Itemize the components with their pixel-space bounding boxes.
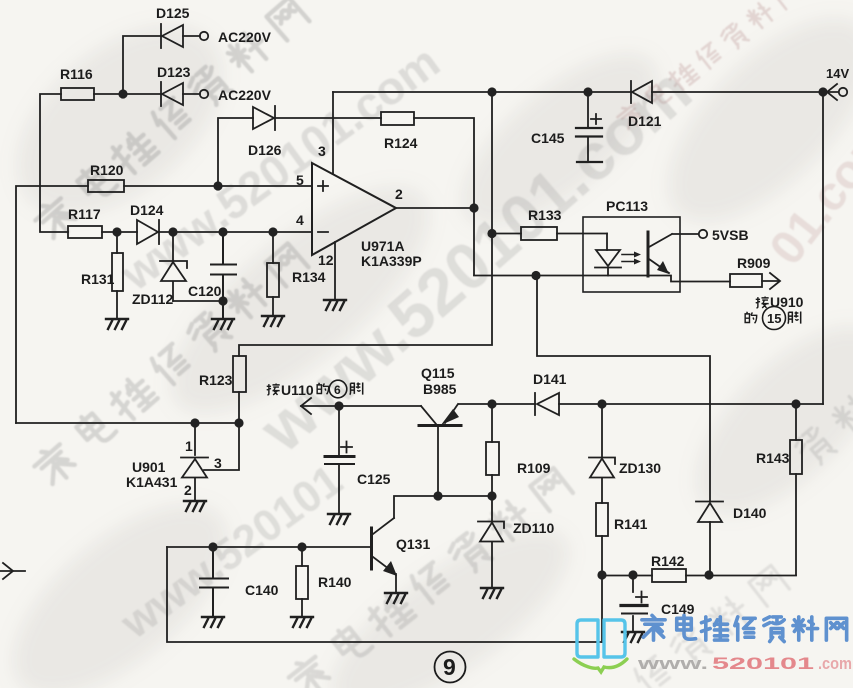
svg-text:.com: .com <box>818 654 852 673</box>
svg-text:K1A339P: K1A339P <box>361 253 422 269</box>
resistor R120 <box>88 180 124 192</box>
node: R134 tap <box>268 227 277 236</box>
wire: R116 right to D123 junction <box>94 93 161 95</box>
node: U901 top junction <box>190 418 199 427</box>
wire: Q131 collector to Q115 base row <box>394 496 492 518</box>
svg-text:ZD112: ZD112 <box>132 291 173 307</box>
node: R109 bottom junction <box>487 491 496 500</box>
terminal 5VSB <box>699 230 707 238</box>
svg-text:C149: C149 <box>661 601 695 617</box>
svg-text:R141: R141 <box>614 516 648 532</box>
diode D126 <box>253 106 275 130</box>
node: 14V rail end <box>818 87 827 96</box>
zener ZD112 <box>160 232 187 301</box>
ground (C149) <box>622 632 644 642</box>
svg-text:D140: D140 <box>733 505 767 521</box>
diode D124 <box>137 220 159 244</box>
node: C125 top junction <box>334 401 343 410</box>
ground (Q131) <box>385 593 407 603</box>
wire: op-amp pin12 to ground <box>334 242 336 299</box>
svg-text:4: 4 <box>296 212 304 228</box>
wire: R142 row <box>602 575 796 577</box>
logo green swoosh <box>574 659 627 672</box>
svg-text:9: 9 <box>443 654 456 680</box>
wire: R909 output arrow <box>762 273 780 289</box>
svg-text:K1A431: K1A431 <box>126 474 178 490</box>
page number 9 circled <box>435 652 466 683</box>
resistor R140 <box>296 547 308 616</box>
wire: D123 to AC220V terminal <box>183 93 200 95</box>
svg-text:C120: C120 <box>188 283 222 299</box>
node: Q115 base / Q131 collector junction <box>433 491 442 500</box>
svg-text:3: 3 <box>214 455 222 471</box>
label 的(15)脚 <box>745 307 801 330</box>
diode D125 <box>161 24 183 48</box>
wire: op-amp pin3 to top rail <box>332 92 334 174</box>
wire: output row y275 to PC113 <box>474 276 730 282</box>
wire: U901 row y423 <box>16 422 239 424</box>
terminal 14V arrow <box>823 84 847 100</box>
svg-text:B985: B985 <box>423 381 457 397</box>
svg-text:5VSB: 5VSB <box>712 227 749 243</box>
svg-text:520101: 520101 <box>712 654 814 673</box>
resistor R133 <box>521 227 557 240</box>
svg-text:D125: D125 <box>156 5 190 21</box>
capacitor C120 <box>211 232 236 318</box>
diode D123 <box>161 82 183 106</box>
wire: R133 leads <box>492 233 607 235</box>
op-amp U971A K1A339P <box>312 163 396 255</box>
node: D126/R120 junction <box>213 181 222 190</box>
wire: R116 left lead and left vertical to R117 row <box>40 94 68 232</box>
watermark: bottom-center hanzi diagonal <box>285 465 574 688</box>
ground (C140) <box>202 617 224 627</box>
node: op-amp output junction <box>469 203 478 212</box>
resistor R141 <box>596 503 608 575</box>
wire: rail tap down to R133 and line A to R123 <box>239 92 492 356</box>
capacitor C145 <box>576 92 602 162</box>
optocoupler PC113 box <box>583 217 680 292</box>
node: R133 tap on vertical <box>487 229 496 238</box>
svg-text:15: 15 <box>767 311 781 326</box>
wire: R120 row to op-amp pin5 <box>16 186 312 423</box>
svg-text:U901: U901 <box>132 459 166 475</box>
ground (R131) <box>106 319 128 329</box>
wire: U110 pin6 row <box>301 405 421 407</box>
watermark: left-lower hanzi diagonal <box>30 240 310 490</box>
node: R131 tap <box>112 227 121 236</box>
svg-text:D141: D141 <box>533 371 567 387</box>
svg-text:U910: U910 <box>770 294 804 310</box>
svg-text:C125: C125 <box>357 471 391 487</box>
svg-text:R142: R142 <box>651 553 685 569</box>
svg-text:D126: D126 <box>248 142 282 158</box>
svg-text:14V: 14V <box>826 66 849 81</box>
svg-text:R140: R140 <box>318 574 352 590</box>
terminal AC220V (D125) <box>200 32 208 40</box>
resistor R143 <box>790 404 802 575</box>
wire: D126 branch <box>218 118 381 186</box>
resistor R116 <box>61 88 94 100</box>
node: rail/R133 vertical tap <box>487 87 496 96</box>
node: ZD130 top junction <box>597 399 606 408</box>
node: ZD112/C120 bottom junction <box>218 296 227 305</box>
zener ZD110 <box>478 496 504 587</box>
watermark: top-left hanzi diagonal <box>31 0 311 244</box>
svg-text:1: 1 <box>185 438 193 454</box>
svg-text:R123: R123 <box>199 372 233 388</box>
resistor R109 <box>486 404 499 496</box>
arrow (left edge off-page) <box>0 563 25 579</box>
svg-text:PC113: PC113 <box>606 198 648 214</box>
wire: top rail 14V <box>333 92 823 404</box>
resistor R131 <box>112 232 123 318</box>
wire: ZD112 anode to C120 bottom junction <box>173 300 223 302</box>
svg-text:R109: R109 <box>517 460 551 476</box>
resistor R142 <box>652 569 686 582</box>
watermark: bottom-right hanzi faint behind blue <box>632 564 791 688</box>
wire: R141 bottom junction down to bottom rail <box>601 575 603 642</box>
svg-text:www.: www. <box>636 654 708 673</box>
wire: left loop vertical and bottom rail <box>167 547 602 642</box>
svg-text:D121: D121 <box>628 113 662 129</box>
node: D140 branch tap <box>531 271 540 280</box>
transistor Q115 <box>419 404 461 496</box>
node: R141/R142 junction <box>597 570 606 579</box>
svg-text:R124: R124 <box>384 135 418 151</box>
node: D140/R142 junction <box>704 570 713 579</box>
wire: R123 bottom to U901 row and pin3 link <box>204 392 239 470</box>
ground (C125) <box>328 514 350 524</box>
brand url www.520101.com <box>636 654 852 673</box>
node: C149 tap <box>628 570 637 579</box>
logo book icon <box>577 620 625 657</box>
wire: D125 branch vertical and leads <box>123 36 200 94</box>
diode D140 <box>696 502 723 576</box>
node: ZD112 tap <box>168 227 177 236</box>
watermark: right-mid hanzi faint <box>793 361 853 469</box>
node: C120 tap <box>218 227 227 236</box>
svg-text:5: 5 <box>296 172 304 188</box>
resistor R117 <box>68 226 102 238</box>
node: C145 rail tap <box>583 87 592 96</box>
svg-text:C140: C140 <box>245 582 279 598</box>
svg-text:C145: C145 <box>531 130 565 146</box>
svg-text:R909: R909 <box>737 255 771 271</box>
svg-text:R133: R133 <box>528 207 562 223</box>
svg-text:AC220V: AC220V <box>218 29 272 45</box>
svg-text:Q131: Q131 <box>396 536 430 552</box>
ground (C120) <box>212 319 234 329</box>
svg-text:R143: R143 <box>756 450 790 466</box>
svg-text:6: 6 <box>334 383 341 397</box>
terminal AC220V (D123) <box>200 90 208 98</box>
capacitor C149 <box>621 575 647 631</box>
svg-text:U971A: U971A <box>361 238 405 254</box>
ground (R134) <box>262 316 284 326</box>
wire: y404 row D141 to right rail <box>459 403 823 405</box>
svg-text:3: 3 <box>318 143 326 159</box>
node: R140 tap <box>297 542 306 551</box>
diode D141 <box>535 393 559 415</box>
svg-text:R120: R120 <box>90 162 124 178</box>
zener ZD130 <box>589 404 615 503</box>
wire: D140 branch from output row <box>537 276 710 502</box>
label 接U110的(6)脚 <box>267 380 363 398</box>
PC113 light arrows <box>622 252 641 265</box>
resistor R123 <box>233 356 246 392</box>
brand text 家电维修资料网 (blue) <box>642 615 847 641</box>
svg-text:12: 12 <box>318 252 334 268</box>
ground (U901) <box>184 501 206 511</box>
svg-text:ZD130: ZD130 <box>619 460 661 476</box>
svg-text:D123: D123 <box>157 64 191 80</box>
ground (ZD110) <box>481 588 503 598</box>
node: D123/D125 junction <box>118 89 127 98</box>
capacitor C125 <box>325 406 354 513</box>
PC113 phototransistor <box>648 232 698 276</box>
ground (op-amp pin12) <box>324 300 346 310</box>
node: Q115 emitter / D141 junction <box>487 399 496 408</box>
svg-text:R134: R134 <box>292 269 326 285</box>
resistor R124 <box>381 112 414 125</box>
svg-text:R117: R117 <box>68 206 101 222</box>
svg-text:R131: R131 <box>81 271 115 287</box>
arrow (to U110 pin6) <box>301 398 311 414</box>
svg-text:R116: R116 <box>60 66 93 82</box>
capacitor C140 <box>200 547 228 616</box>
svg-text:ZD110: ZD110 <box>513 520 554 536</box>
wire: Q131 base row <box>167 546 370 548</box>
svg-text:U110: U110 <box>281 382 314 398</box>
resistor R134 <box>267 232 279 315</box>
node: R123 bottom junction <box>234 418 243 427</box>
diode D121 <box>631 81 652 103</box>
svg-text:AC220V: AC220V <box>218 87 272 103</box>
svg-text:D124: D124 <box>130 202 164 218</box>
wire: R124 right down to op-amp output <box>414 118 474 275</box>
watermark: top-right hanzi diagonal <box>615 0 802 133</box>
node: C140 tap <box>208 542 217 551</box>
svg-text:Q115: Q115 <box>421 365 455 381</box>
wire: R117 row to op-amp pin4 <box>102 231 312 233</box>
svg-text:2: 2 <box>395 186 403 202</box>
svg-text:2: 2 <box>184 482 192 498</box>
ground (R140) <box>291 617 313 627</box>
node: R143 top junction <box>791 399 800 408</box>
resistor R909 <box>730 274 762 287</box>
wire: op-amp output pin2 <box>396 207 474 209</box>
label 接U910 <box>756 294 804 310</box>
PC113 LED <box>595 234 621 276</box>
shunt regulator U901 K1A431 <box>181 423 208 500</box>
transistor Q131 <box>372 518 398 592</box>
